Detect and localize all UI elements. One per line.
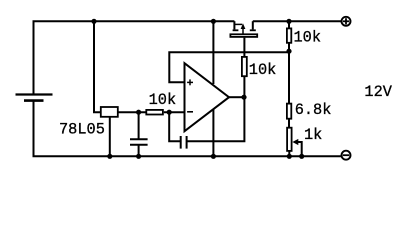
- node: potentiometer bottom junction: [287, 154, 292, 159]
- capacitor C2: [181, 136, 187, 149]
- wire: divider node down to R4: [288, 52, 290, 103]
- wire: op-amp V+ supply pin from top rail: [212, 21, 214, 84]
- label + (non-inverting input): [187, 79, 193, 85]
- wire: feedback line from divider node to non-inverting input: [169, 52, 289, 82]
- wire: R4 to potentiometer R5: [288, 119, 290, 127]
- node: capacitor C1 junction on bottom rail: [136, 154, 141, 159]
- node: potentiometer wiper junction: [299, 154, 304, 159]
- node: V+ supply junction on top rail: [211, 19, 216, 24]
- node: V- supply junction on bottom rail: [211, 154, 216, 159]
- wire: battery - lead down and bottom rail to negative terminal: [34, 101, 341, 157]
- resistor R4: [287, 104, 291, 119]
- wire: top rail to R3: [288, 21, 290, 28]
- node: op-amp output junction: [241, 95, 246, 100]
- node: junction R1 / C2 / inverting input: [167, 110, 172, 115]
- svg-text:1k: 1k: [304, 126, 322, 144]
- svg-text:10k: 10k: [149, 91, 177, 109]
- node: junction output / capacitor C1: [136, 110, 141, 115]
- wire: top rail down to 78L05 input: [94, 21, 101, 112]
- wire: R2 to op-amp output: [243, 77, 245, 97]
- wire: 78L05 ground pin: [109, 118, 111, 157]
- node: regulator ground junction on bottom rail: [107, 154, 112, 159]
- label - (inverting input): [187, 111, 193, 113]
- wire: top rail from MOSFET drain to positive terminal: [253, 20, 341, 22]
- wire: R1 to op-amp inverting input: [164, 111, 185, 113]
- svg-text:10k: 10k: [249, 61, 277, 79]
- wire: 78L05 output to resistor R1: [118, 111, 146, 113]
- svg-text:78L05: 78L05: [59, 120, 105, 138]
- potentiometer R5: [287, 128, 302, 157]
- svg-text:6.8k: 6.8k: [295, 101, 332, 119]
- wire: R3 to divider node: [288, 43, 290, 52]
- node: junction top rail to regulator input: [91, 19, 96, 24]
- op-amp U2: [185, 63, 230, 131]
- capacitor C1: [130, 112, 148, 156]
- svg-text:12V: 12V: [364, 83, 392, 101]
- resistor R2: [242, 57, 247, 76]
- terminal: negative output: [342, 151, 351, 160]
- regulator U1 78L05: [101, 107, 118, 117]
- wire: capacitor C2 to op-amp output: [187, 97, 245, 141]
- wire: MOSFET gate lead down to R2: [243, 38, 245, 57]
- resistor R3: [287, 28, 291, 42]
- wire: down from inverting node to capacitor C2: [169, 112, 181, 141]
- node: divider feedback node: [286, 49, 291, 54]
- wire: op-amp output: [229, 96, 244, 98]
- transistor Q1 (P-MOSFET pass transistor): [230, 21, 257, 37]
- terminal: positive output: [342, 17, 351, 26]
- resistor R1: [146, 110, 163, 115]
- battery B1: [16, 95, 53, 101]
- node: junction top rail / R3: [286, 19, 291, 24]
- svg-text:10k: 10k: [294, 29, 322, 47]
- wire: battery + lead up and top rail to MOSFET source: [34, 21, 235, 94]
- wire: op-amp V- supply pin to bottom rail: [212, 109, 214, 156]
